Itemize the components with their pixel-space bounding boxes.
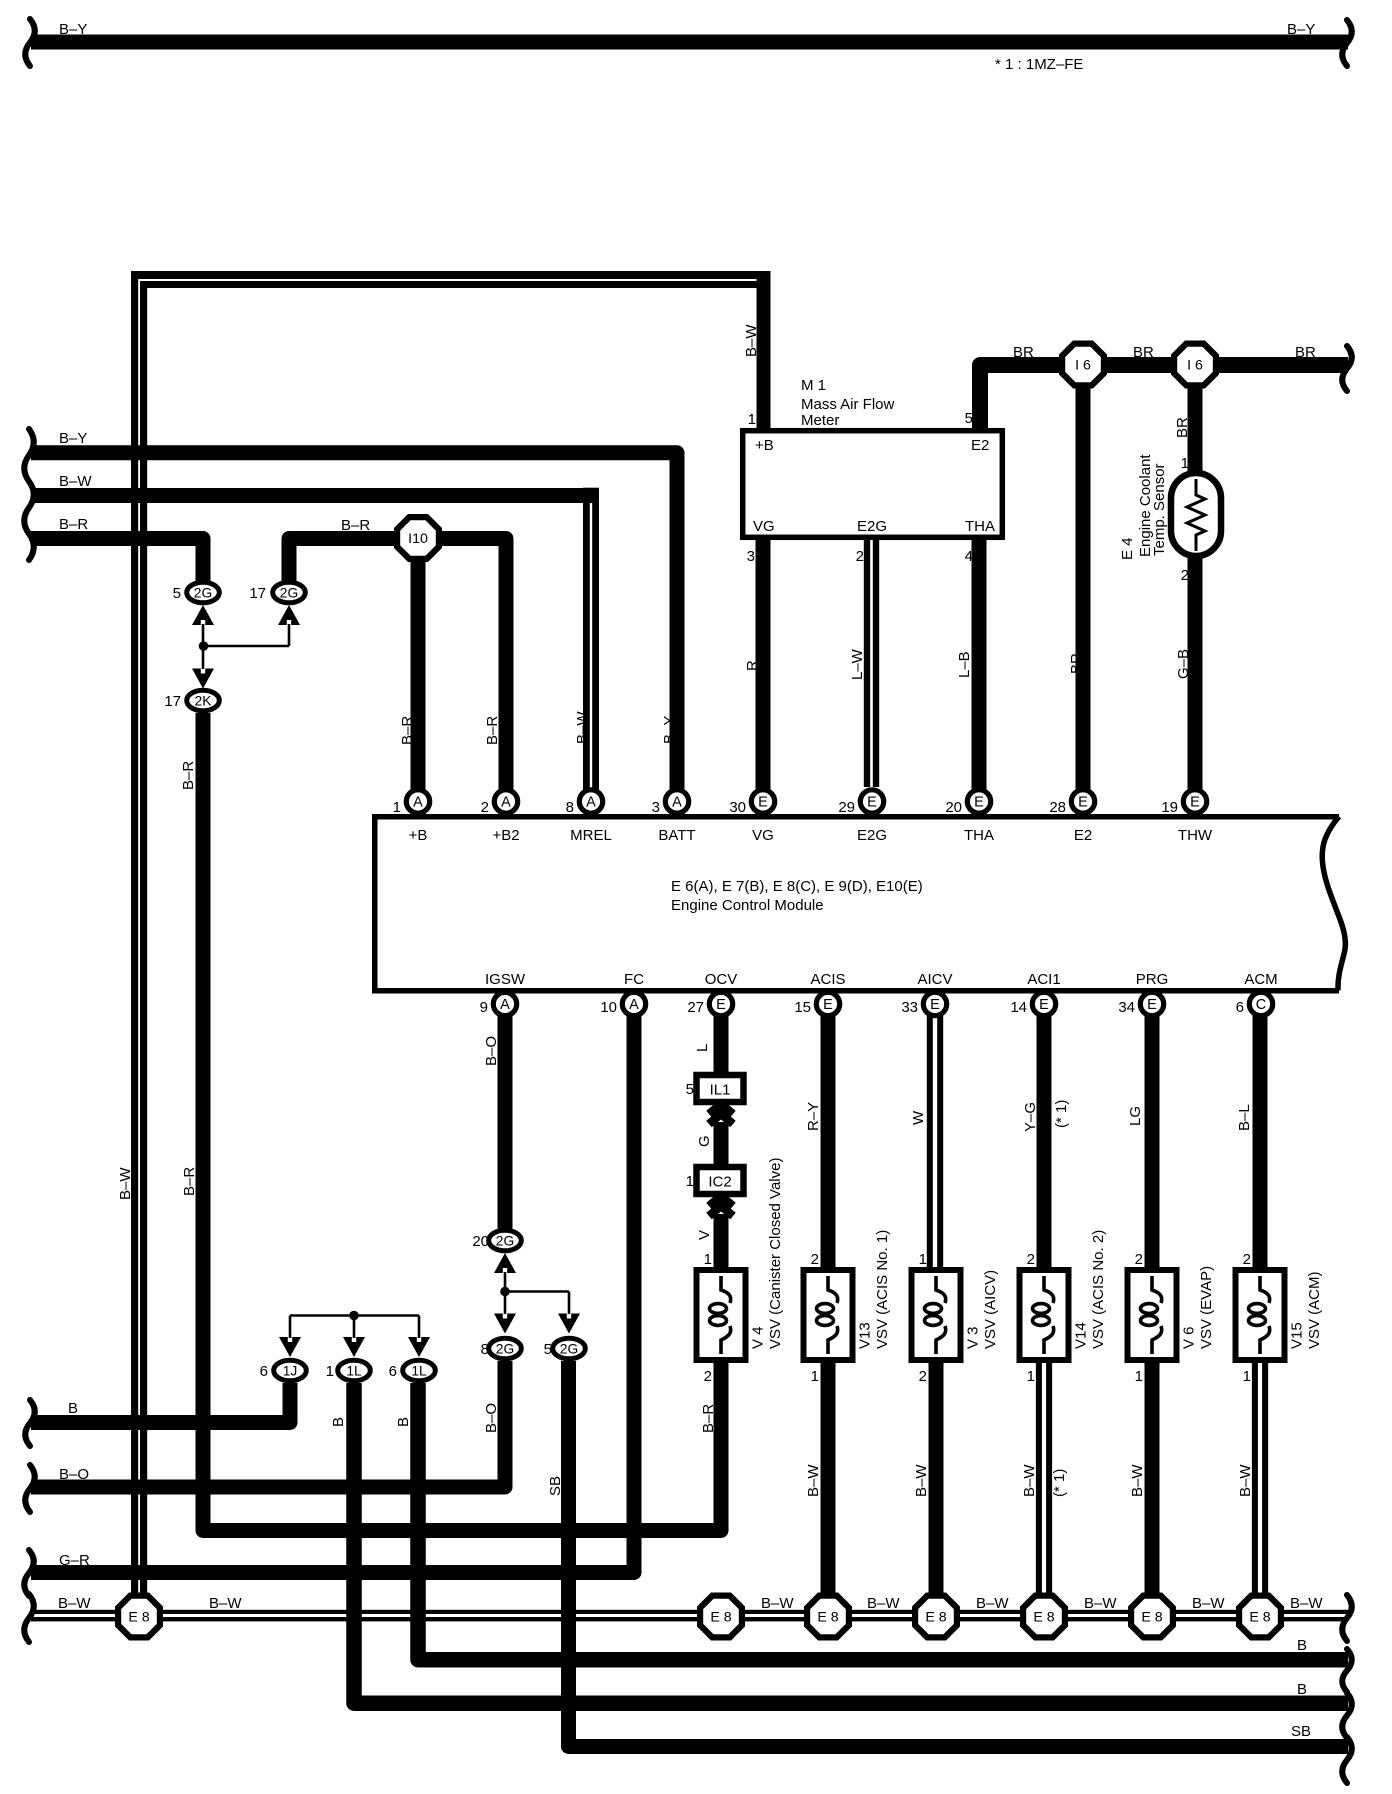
wire SB from connector 2G pin 5 to SB bus	[569, 1361, 1349, 1747]
svg-text:V 6: V 6	[1181, 1326, 1198, 1349]
connector 2G pin 5 oval	[187, 582, 220, 603]
connector 1L pin 1 oval	[338, 1360, 371, 1381]
svg-text:BR: BR	[1133, 344, 1154, 361]
svg-text:AICV: AICV	[917, 971, 952, 988]
junction dot on 2G link	[500, 1287, 510, 1297]
wire R from MAF VG to ECM pin 30	[756, 540, 771, 790]
svg-text:2: 2	[1027, 1251, 1035, 1268]
wire G-R bus at left	[24, 1550, 34, 1596]
wire B-O from ECM pin 9 IGSW to connector 2G pin 20	[498, 1016, 513, 1229]
component E4 Engine Coolant Temp Sensor	[1171, 473, 1221, 556]
svg-text:Meter: Meter	[801, 412, 839, 429]
svg-text:SB: SB	[1291, 1723, 1311, 1740]
svg-text:E2: E2	[971, 437, 989, 454]
ECM pin 8 MREL	[579, 790, 602, 813]
svg-text:33: 33	[901, 999, 918, 1016]
svg-text:BATT: BATT	[658, 827, 695, 844]
wire B-Y vertical to ECM pin 3 BATT	[670, 700, 685, 790]
svg-text:L–B: L–B	[956, 651, 973, 678]
svg-text:A: A	[500, 997, 510, 1013]
connector arrows below IL1	[709, 1104, 733, 1114]
svg-text:A: A	[586, 795, 596, 811]
connector 2G pin 17 oval	[273, 582, 306, 603]
svg-text:B–R: B–R	[181, 1167, 198, 1196]
svg-text:6: 6	[389, 1363, 397, 1380]
wire B lower bottom bus	[1342, 1693, 1352, 1738]
svg-text:1: 1	[748, 411, 756, 428]
svg-text:6: 6	[260, 1363, 268, 1380]
wire B-W from valve V6 to E8	[1145, 1360, 1160, 1594]
svg-text:3: 3	[747, 548, 755, 565]
ECM pin 20 THA	[967, 790, 990, 813]
connector 2G pin 20 oval	[489, 1230, 522, 1251]
wire B-Y top bus	[31, 35, 1348, 50]
svg-text:E 8: E 8	[128, 1610, 149, 1626]
svg-text:2K: 2K	[195, 694, 213, 709]
svg-text:ACM: ACM	[1244, 971, 1277, 988]
svg-text:THA: THA	[965, 518, 995, 535]
wire B-W left bus to MREL	[31, 488, 599, 503]
svg-text:B–W: B–W	[976, 1595, 1009, 1612]
link wires joining 2G pair to 2K	[202, 624, 205, 646]
svg-text:1: 1	[326, 1363, 334, 1380]
svg-text:B–R: B–R	[341, 517, 370, 534]
svg-text:B–R: B–R	[700, 1404, 717, 1433]
component V6 VSV (EVAP)	[1128, 1270, 1177, 1360]
wire B-O bus at left	[25, 1465, 35, 1512]
svg-text:2: 2	[1243, 1251, 1251, 1268]
connector arrow above 2K pin 17	[192, 669, 214, 689]
connector arrow below 2G pin 20	[494, 1253, 516, 1273]
svg-text:19: 19	[1161, 799, 1178, 816]
svg-text:G–B: G–B	[1175, 649, 1192, 679]
connector arrow above 1L pin 1	[343, 1337, 365, 1357]
svg-text:E: E	[1190, 795, 1200, 811]
connector arrows below IC2	[709, 1196, 733, 1206]
svg-text:V13: V13	[857, 1322, 874, 1349]
wire B-R from connector 2K down to V4 return line	[203, 713, 721, 1531]
svg-text:B–W: B–W	[1084, 1595, 1117, 1612]
svg-text:B–O: B–O	[59, 1466, 89, 1483]
ground junction connector E8	[115, 1593, 163, 1641]
connector arrow above 2G pin 8	[494, 1314, 516, 1334]
svg-text:B–R: B–R	[399, 716, 416, 745]
svg-text:20: 20	[945, 799, 962, 816]
svg-text:3: 3	[652, 799, 660, 816]
wire B-W shielded from valve V14 to E8	[1036, 1360, 1042, 1594]
component Engine Control Module box	[372, 814, 1339, 820]
wire B from connector 1L pin 6 down to upper B bus	[418, 1383, 1348, 1660]
svg-text:5: 5	[965, 410, 973, 427]
svg-text:2: 2	[919, 1368, 927, 1385]
svg-text:E: E	[823, 997, 833, 1013]
svg-text:I 6: I 6	[1075, 358, 1091, 374]
svg-text:1: 1	[704, 1251, 712, 1268]
svg-text:2G: 2G	[560, 1342, 578, 1357]
svg-text:4: 4	[965, 548, 973, 565]
wire SB bottom bus	[1342, 1737, 1352, 1783]
svg-text:B–Y: B–Y	[661, 716, 678, 744]
junction connector IC2	[697, 1167, 744, 1194]
svg-text:IL1: IL1	[710, 1082, 731, 1099]
svg-text:2: 2	[856, 548, 864, 565]
svg-text:B–W: B–W	[867, 1595, 900, 1612]
svg-text:E2G: E2G	[857, 518, 887, 535]
svg-text:THW: THW	[1178, 827, 1213, 844]
svg-text:A: A	[501, 795, 511, 811]
svg-text:E: E	[930, 997, 940, 1013]
wire B-R left bus to connector 2G pin 5	[31, 539, 203, 582]
svg-text:(* 1): (* 1)	[1051, 1469, 1068, 1497]
connector arrow below 2G pin 17	[278, 605, 300, 625]
svg-text:17: 17	[249, 585, 266, 602]
svg-text:E: E	[1039, 997, 1049, 1013]
ECM pin 30 VG	[751, 790, 774, 813]
svg-text:VG: VG	[752, 827, 774, 844]
svg-text:W: W	[910, 1110, 927, 1125]
svg-text:2G: 2G	[280, 586, 298, 601]
svg-text:E 8: E 8	[1033, 1610, 1054, 1626]
svg-text:E 8: E 8	[817, 1610, 838, 1626]
svg-text:B: B	[1297, 1637, 1307, 1654]
wire L-W shielded from MAF E2G to ECM pin 29	[864, 540, 870, 787]
svg-text:+B: +B	[755, 437, 774, 454]
wire B-Y left bus to BATT	[31, 453, 677, 782]
svg-text:B–W: B–W	[761, 1595, 794, 1612]
svg-text:VG: VG	[753, 518, 775, 535]
svg-text:B–W: B–W	[913, 1464, 930, 1497]
svg-text:28: 28	[1049, 799, 1066, 816]
wire B-W from valve V13 to E8	[821, 1360, 836, 1594]
svg-text:34: 34	[1118, 999, 1135, 1016]
component V15 VSV (ACM)	[1236, 1270, 1285, 1360]
svg-text:E 6(A), E 7(B), E 8(C), E 9(D): E 6(A), E 7(B), E 8(C), E 9(D), E10(E)	[671, 878, 923, 895]
svg-text:17: 17	[164, 693, 181, 710]
svg-text:1L: 1L	[346, 1364, 362, 1379]
svg-text:E2G: E2G	[857, 827, 887, 844]
ECM pin 1 +B	[406, 790, 429, 813]
svg-text:VSV (AICV): VSV (AICV)	[982, 1270, 999, 1349]
wire BR from junction I6 down to ECM pin 28 E2	[1076, 383, 1091, 790]
svg-text:VSV (ACIS No. 1): VSV (ACIS No. 1)	[874, 1230, 891, 1349]
ECM pin 19 THW	[1183, 790, 1206, 813]
svg-text:B–Y: B–Y	[59, 21, 87, 38]
svg-text:+B: +B	[409, 827, 428, 844]
wire B bus at left	[25, 1400, 35, 1446]
ECM pin 3 BATT	[665, 790, 688, 813]
ground junction connector E8	[804, 1593, 852, 1641]
component V14 VSV (ACIS No. 2)	[1020, 1270, 1069, 1360]
wire Y-G from ECM pin 14 ACI1 to valve V14	[1037, 1016, 1052, 1270]
svg-text:1: 1	[393, 799, 401, 816]
svg-text:THA: THA	[964, 827, 994, 844]
svg-text:SB: SB	[547, 1476, 564, 1496]
wire B-O from connector 2G pin 8 to B-O bus	[31, 1361, 505, 1487]
connector 2G pin 5 lower oval	[553, 1338, 586, 1359]
svg-text:2: 2	[811, 1251, 819, 1268]
svg-text:PRG: PRG	[1136, 971, 1169, 988]
svg-text:LG: LG	[1127, 1106, 1144, 1126]
svg-text:B–R: B–R	[180, 761, 197, 790]
svg-text:C: C	[1256, 997, 1266, 1013]
svg-text:B–W: B–W	[209, 1595, 242, 1612]
svg-text:8: 8	[566, 799, 574, 816]
svg-text:1: 1	[811, 1368, 819, 1385]
wire B-W vertical to ECM pin 8 MREL	[583, 488, 599, 498]
wire B-R from junction I10 down to ECM pin 1 +B	[411, 560, 426, 790]
svg-text:E 4: E 4	[1119, 537, 1136, 560]
component V13 VSV (ACIS No. 1)	[804, 1270, 853, 1360]
connector 1J pin 6 oval	[274, 1360, 307, 1381]
wire B upper bottom bus	[1342, 1649, 1352, 1692]
ground junction connector E8	[1236, 1593, 1284, 1641]
connector 2K pin 17 oval	[187, 690, 220, 711]
svg-text:E: E	[974, 795, 984, 811]
wire B-W from valve V3 to E8	[929, 1360, 944, 1594]
svg-text:B–O: B–O	[483, 1403, 500, 1433]
svg-text:IC2: IC2	[708, 1174, 731, 1191]
svg-text:Y–G: Y–G	[1022, 1102, 1039, 1132]
wire L from ECM pin 27 OCV to junction IL1	[714, 1016, 729, 1075]
wire G-R from ECM pin 10 FC down to G-R bus	[31, 1016, 634, 1573]
ECM pin 28 E2	[1071, 790, 1094, 813]
svg-text:V 3: V 3	[965, 1326, 982, 1349]
svg-text:R: R	[744, 660, 761, 671]
svg-text:B–W: B–W	[58, 1595, 91, 1612]
svg-text:2G: 2G	[496, 1234, 514, 1249]
wire B-W shielded from valve V15 to E8	[1252, 1360, 1258, 1594]
wire end squiggle for B-Y/B-W/B-R left buses	[24, 429, 34, 560]
wire L-B from MAF THA to ECM pin 20	[972, 540, 987, 790]
junction dot on 1J/1L link	[349, 1311, 359, 1321]
svg-text:2: 2	[704, 1368, 712, 1385]
svg-text:(* 1): (* 1)	[1053, 1100, 1070, 1128]
svg-text:14: 14	[1010, 999, 1027, 1016]
svg-text:5: 5	[686, 1081, 694, 1098]
svg-text:ACIS: ACIS	[810, 971, 845, 988]
svg-text:1: 1	[1243, 1368, 1251, 1385]
svg-text:2: 2	[481, 799, 489, 816]
svg-text:B–L: B–L	[1236, 1104, 1253, 1131]
wire B from connector 1L pin 1 down to lower B bus	[354, 1383, 1348, 1703]
svg-text:B: B	[395, 1417, 412, 1427]
svg-text:B–W: B–W	[117, 1167, 134, 1200]
svg-text:10: 10	[600, 999, 617, 1016]
svg-text:1: 1	[1135, 1368, 1143, 1385]
wire segment vertical to MAF +B pin 1	[757, 271, 771, 429]
svg-text:B–R: B–R	[484, 716, 501, 745]
svg-text:A: A	[672, 795, 682, 811]
wire BR from junction I6 down to coolant sensor pin 1	[1188, 383, 1203, 476]
svg-text:E: E	[1078, 795, 1088, 811]
connector 2G pin 8 oval	[489, 1338, 522, 1359]
wire G-B from coolant sensor pin 2 to ECM pin 19 THW	[1188, 553, 1203, 790]
svg-text:B–W: B–W	[1290, 1595, 1323, 1612]
svg-text:V15: V15	[1289, 1322, 1306, 1349]
svg-text:G–R: G–R	[59, 1552, 90, 1569]
svg-text:E: E	[867, 795, 877, 811]
svg-text:B–W: B–W	[1021, 1464, 1038, 1497]
svg-text:1: 1	[686, 1173, 694, 1190]
svg-text:I 6: I 6	[1187, 358, 1203, 374]
svg-text:30: 30	[729, 799, 746, 816]
svg-text:R–Y: R–Y	[805, 1102, 822, 1131]
svg-text:Mass Air Flow: Mass Air Flow	[801, 396, 895, 413]
wire B-R inner run beside B-W down left side	[140, 281, 758, 288]
svg-text:MREL: MREL	[570, 827, 612, 844]
svg-text:15: 15	[794, 999, 811, 1016]
svg-text:L: L	[694, 1044, 711, 1052]
svg-text:FC: FC	[624, 971, 644, 988]
component V3 VSV (AICV)	[912, 1270, 961, 1360]
wire V between IC2 and valve V4	[714, 1214, 729, 1270]
connector arrow above 1J pin 6	[279, 1337, 301, 1357]
wire from connector 1J to B bus	[31, 1383, 290, 1423]
svg-text:E 8: E 8	[710, 1610, 731, 1626]
svg-text:E 8: E 8	[925, 1610, 946, 1626]
svg-text:A: A	[413, 795, 423, 811]
svg-text:6: 6	[1236, 999, 1244, 1016]
svg-text:E2: E2	[1074, 827, 1092, 844]
svg-text:VSV (ACIS No. 2): VSV (ACIS No. 2)	[1090, 1230, 1107, 1349]
ground junction connector E8	[697, 1593, 745, 1641]
svg-text:Engine Control Module: Engine Control Module	[671, 897, 824, 914]
ground junction connector E8	[1128, 1593, 1176, 1641]
ECM pin 29 E2G	[860, 790, 883, 813]
svg-text:B: B	[68, 1400, 78, 1417]
link wires joining connectors 1J and 1L pair	[289, 1316, 292, 1339]
svg-text:B: B	[1297, 1681, 1307, 1698]
svg-text:1: 1	[1027, 1368, 1035, 1385]
svg-text:B–W: B–W	[574, 711, 591, 744]
svg-text:B–Y: B–Y	[59, 430, 87, 447]
wire W shielded from ECM pin 33 AICV to valve V3	[927, 1016, 933, 1270]
svg-text:B–W: B–W	[1237, 1464, 1254, 1497]
wire B-R line from connector 2G pin 17 through junction I10	[289, 539, 506, 791]
junction connector I6 first	[1059, 341, 1107, 389]
svg-text:B–W: B–W	[59, 473, 92, 490]
svg-text:1: 1	[919, 1251, 927, 1268]
svg-text:B–W: B–W	[1129, 1464, 1146, 1497]
svg-text:E 8: E 8	[1249, 1610, 1270, 1626]
wire G between IL1 and IC2	[714, 1122, 729, 1167]
svg-text:G: G	[696, 1135, 713, 1147]
wire B-W from MAF +B pin 1 running left and down left side	[131, 271, 771, 279]
svg-text:2G: 2G	[496, 1342, 514, 1357]
junction connector I10	[394, 514, 442, 562]
svg-text:B–Y: B–Y	[1287, 21, 1315, 38]
wire B-W thin ground bus	[31, 1610, 1348, 1614]
svg-text:E: E	[716, 997, 726, 1013]
svg-text:VSV (Canister Closed Valve): VSV (Canister Closed Valve)	[767, 1158, 784, 1349]
svg-text:A: A	[629, 997, 639, 1013]
ECM pin 2 +B2	[494, 790, 517, 813]
svg-text:L–W: L–W	[849, 648, 866, 680]
svg-text:Temp. Sensor: Temp. Sensor	[1151, 463, 1168, 556]
connector 1L pin 6 oval	[403, 1360, 436, 1381]
svg-text:VSV (EVAP): VSV (EVAP)	[1198, 1266, 1215, 1349]
connector arrow below 2G pin 5	[192, 605, 214, 625]
svg-text:V14: V14	[1073, 1322, 1090, 1349]
svg-text:29: 29	[838, 799, 855, 816]
svg-text:B–W: B–W	[805, 1464, 822, 1497]
svg-text:5: 5	[173, 585, 181, 602]
svg-text:I10: I10	[408, 531, 428, 547]
svg-text:E 8: E 8	[1141, 1610, 1162, 1626]
svg-text:1J: 1J	[283, 1364, 298, 1379]
wire R-Y from ECM pin 15 ACIS to valve V13	[821, 1016, 836, 1270]
wire end squiggle left of B-Y top bus	[25, 19, 35, 66]
svg-text:E: E	[758, 795, 768, 811]
svg-text:BR: BR	[1013, 344, 1034, 361]
svg-text:M 1: M 1	[801, 377, 826, 394]
svg-text:V: V	[696, 1230, 713, 1240]
svg-text:B–W: B–W	[743, 324, 760, 357]
svg-text:9: 9	[480, 999, 488, 1016]
svg-text:5: 5	[544, 1341, 552, 1358]
svg-text:ACI1: ACI1	[1027, 971, 1060, 988]
wire end squiggle right of B-Y top bus	[1342, 20, 1352, 66]
junction dot at 2G/2K link	[199, 641, 209, 651]
svg-text:VSV (ACM): VSV (ACM)	[1306, 1271, 1323, 1349]
junction connector IL1	[697, 1075, 744, 1102]
svg-text:BR: BR	[1068, 653, 1085, 674]
wire B-L from ECM pin 6 ACM to valve V15	[1253, 1016, 1268, 1270]
wire BR bus from MAF E2 to right edge	[980, 365, 1348, 429]
svg-text:B–O: B–O	[483, 1036, 500, 1066]
svg-text:V 4: V 4	[750, 1326, 767, 1349]
svg-text:BR: BR	[1174, 417, 1191, 438]
wire end squiggle right of BR bus	[1342, 346, 1352, 391]
svg-text:B–R: B–R	[59, 516, 88, 533]
ground junction connector E8	[912, 1593, 960, 1641]
svg-text:B–W: B–W	[1192, 1595, 1225, 1612]
component V4 VSV (Canister Closed Valve)	[697, 1270, 746, 1360]
svg-text:E: E	[1147, 997, 1157, 1013]
svg-text:IGSW: IGSW	[485, 971, 526, 988]
connector arrow above 1L pin 6	[408, 1337, 430, 1357]
svg-text:+B2: +B2	[492, 827, 519, 844]
wire LG from ECM pin 34 PRG to valve V6	[1145, 1016, 1160, 1270]
svg-text:2G: 2G	[194, 586, 212, 601]
link wires joining 2G pin 20 to 2G pins 8 and 5	[504, 1272, 507, 1292]
svg-text:B: B	[330, 1417, 347, 1427]
svg-text:2: 2	[1135, 1251, 1143, 1268]
svg-text:8: 8	[481, 1341, 489, 1358]
component M1 Mass Air Flow Meter box	[743, 431, 1003, 538]
svg-text:1: 1	[1181, 455, 1189, 472]
svg-text:OCV: OCV	[705, 971, 738, 988]
svg-text:27: 27	[687, 999, 704, 1016]
svg-text:1L: 1L	[411, 1364, 427, 1379]
svg-text:BR: BR	[1295, 344, 1316, 361]
svg-text:* 1 : 1MZ–FE: * 1 : 1MZ–FE	[995, 56, 1083, 73]
svg-text:20: 20	[472, 1233, 489, 1250]
ground junction connector E8	[1020, 1593, 1068, 1641]
connector arrow above 2G pin 5 lower	[558, 1314, 580, 1334]
junction connector I6 second	[1171, 341, 1219, 389]
